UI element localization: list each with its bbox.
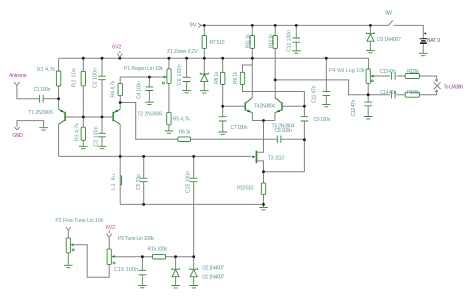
junction rail-P1: [168, 57, 171, 60]
junction rail-R8: [221, 57, 224, 60]
wire 6V2 regulated rail: [59, 58, 369, 69]
potentiometer P4 body: [366, 69, 370, 84]
wire T2 collector: [119, 124, 121, 156]
resistor R9: [240, 72, 244, 84]
capacitor C9: [301, 117, 309, 121]
transistor T1 2N3906 PNP: [59, 109, 66, 124]
wire L1 stem: [119, 156, 121, 204]
junction 9V-C10: [295, 24, 298, 27]
svg-text:T2 2N3906: T2 2N3906: [137, 112, 162, 118]
junction tune-D1: [174, 255, 177, 258]
wire audio takeoff T5 collector to P4 bottom: [275, 80, 368, 95]
wire D2 leads: [193, 257, 195, 285]
capacitor C7: [219, 117, 227, 121]
svg-text:P4 Vol Log 10k: P4 Vol Log 10k: [329, 68, 365, 74]
junction 9V-R11: [251, 24, 254, 27]
connector X To LM386: [434, 82, 441, 89]
wire C12 leads: [367, 95, 369, 116]
wire 9V rail right segment to battery: [394, 25, 424, 38]
capacitor C10: [293, 38, 301, 42]
capacitor C12: [364, 102, 372, 106]
svg-text:C13 47n: C13 47n: [380, 69, 397, 75]
wire ground bus: [120, 203, 263, 205]
diode D1 1N4007 varactor: [172, 268, 179, 277]
wire C15 leads: [193, 156, 195, 256]
svg-text:R9 1k: R9 1k: [233, 71, 239, 84]
capacitor C6: [183, 77, 191, 81]
svg-text:R1 4,7k: R1 4,7k: [37, 67, 55, 73]
potentiometer P2 wiper: [70, 243, 74, 251]
svg-text:Antenna: Antenna: [9, 73, 27, 79]
potentiometer P1 body: [167, 69, 171, 84]
svg-text:C5 33p: C5 33p: [136, 174, 142, 190]
resistor R13: [405, 74, 419, 79]
wire P1 top lead: [168, 58, 170, 69]
wire P3 bottom to P2 wiper: [74, 245, 109, 277]
capacitor C14: [391, 91, 395, 99]
svg-text:R6 1k: R6 1k: [179, 129, 191, 135]
wire volume row1 wiper to C13 R13: [373, 76, 436, 80]
ground below C4: [145, 102, 154, 104]
wire R9 bottom to T5 base node: [243, 85, 305, 107]
pin P2 top: [66, 227, 71, 230]
wire P1 bottom to R5: [168, 83, 170, 130]
svg-text:D2 1N4007: D2 1N4007: [202, 265, 224, 271]
junction rail-R2: [82, 57, 85, 60]
ground below R10: [259, 207, 268, 209]
junction wiper-C4: [148, 76, 151, 79]
svg-text:C16 100n: C16 100n: [114, 267, 138, 273]
wire C2 leads: [101, 58, 103, 117]
wire C5 leads: [143, 156, 145, 204]
svg-text:C6 100n: C6 100n: [177, 64, 183, 85]
capacitor C13: [391, 72, 395, 80]
junction T5col audio: [274, 79, 277, 82]
junction rail-Z1: [203, 57, 206, 60]
junction 9V-D3: [369, 24, 372, 27]
svg-text:R15 100k: R15 100k: [148, 246, 168, 252]
svg-text:R4 4,7k: R4 4,7k: [110, 80, 116, 97]
wire volume row2 to C14 R14: [368, 92, 436, 95]
ground below battery: [419, 53, 428, 55]
resistor R2: [81, 71, 85, 86]
ground below R5: [165, 131, 174, 133]
wire Z1 leads: [203, 58, 205, 90]
ground below D2: [189, 286, 198, 288]
ground below C7: [218, 132, 227, 134]
wire tank bus: [59, 155, 252, 157]
wire R2 leads: [82, 58, 84, 117]
resistor R1: [56, 71, 60, 86]
ground below P2: [64, 265, 73, 267]
junction bus-C5: [142, 155, 145, 158]
ground below Z1: [200, 91, 209, 93]
pin 9V: [198, 23, 201, 27]
potentiometer P2 body: [66, 238, 70, 253]
capacitor C1: [40, 95, 44, 103]
capacitor C8: [277, 136, 281, 143]
potentiometer P3 body: [107, 249, 111, 265]
wire tune line P3 wiper to R15 to varactors: [114, 256, 193, 258]
svg-text:P1 Regen Lin 10k: P1 Regen Lin 10k: [124, 66, 163, 72]
svg-text:R5 4,7k: R5 4,7k: [173, 117, 190, 123]
switch SW: [388, 20, 393, 25]
svg-text:C11 47n: C11 47n: [312, 85, 318, 103]
junction rail-T4col: [251, 57, 254, 60]
transistor T3 J113 JFET: [252, 151, 257, 164]
wire C4 leads: [148, 77, 150, 102]
svg-text:C3 100n: C3 100n: [94, 126, 100, 146]
resistor R10: [261, 183, 265, 195]
junction T5 base-C9: [303, 105, 306, 108]
wire T2 emitter node and R4 lead: [120, 96, 178, 140]
junction bus-T2col-L1: [119, 155, 122, 158]
svg-text:R8 1k: R8 1k: [214, 71, 220, 84]
wire C11 leads: [325, 58, 327, 104]
junction rail-C2: [101, 57, 104, 60]
svg-text:T3 J113: T3 J113: [268, 155, 284, 161]
junction T2 emitter R4: [119, 101, 122, 104]
wire T4 base: [223, 105, 245, 107]
svg-text:T1 2N3906: T1 2N3906: [28, 110, 53, 116]
svg-text:C14 47n: C14 47n: [380, 90, 397, 96]
capacitor C16: [139, 270, 147, 275]
svg-text:P3 Tune Lin 100k: P3 Tune Lin 100k: [118, 236, 154, 242]
ground at GND pin: [39, 128, 48, 130]
svg-text:C7 100n: C7 100n: [231, 125, 248, 131]
wire T5 base: [283, 105, 305, 107]
svg-text:9V: 9V: [190, 23, 197, 29]
pin tick row1 end: [435, 80, 438, 82]
junction 9V-R12: [274, 24, 277, 27]
wire D3 leads: [369, 25, 371, 50]
junction rail-C11: [325, 57, 328, 60]
svg-text:C4 100n: C4 100n: [137, 81, 143, 99]
junction base-C3: [101, 116, 104, 119]
junction tune-C16: [141, 255, 144, 258]
wire R6 to C8 to C9 node: [191, 138, 305, 140]
potentiometer P3 wiper: [111, 255, 115, 264]
svg-text:6V2: 6V2: [106, 225, 115, 231]
pin GND: [14, 127, 19, 130]
junction tune-D2: [192, 255, 195, 258]
zener diode Z1: [200, 73, 208, 82]
resistor R4: [118, 83, 122, 95]
potentiometer P1 wiper: [163, 76, 167, 84]
svg-text:C15 100n: C15 100n: [185, 171, 191, 193]
capacitor C11: [323, 91, 331, 95]
battery BAT 9: [420, 33, 427, 44]
resistor R8: [221, 72, 225, 84]
resistor R14: [405, 92, 419, 97]
svg-text:T4 2N3904: T4 2N3904: [254, 103, 275, 109]
svg-text:R13 1k: R13 1k: [407, 69, 419, 75]
svg-text:R2 10k: R2 10k: [71, 68, 77, 87]
junction bus-C15: [192, 155, 195, 158]
ground below C3: [98, 146, 107, 148]
capacitor C15: [190, 178, 198, 182]
wire R1 leads: [58, 58, 60, 109]
resistor R15: [153, 254, 166, 259]
transistor T4 2N3904 NPN: [245, 98, 253, 113]
capacitor C4: [146, 87, 154, 91]
capacitor C5: [140, 178, 148, 182]
ground below C6: [182, 90, 191, 92]
resistor R5: [167, 112, 171, 124]
svg-text:C9 100n: C9 100n: [314, 117, 331, 123]
wire base line T1-T2: [66, 116, 112, 118]
pin 6V2 supply arrow top: [117, 51, 122, 57]
junction rail-C6: [185, 57, 188, 60]
junction R6-C9-T3: [303, 138, 306, 141]
ground below C10: [292, 51, 301, 53]
resistor R3: [81, 127, 85, 140]
pin 6V2 supply arrow at P3: [107, 230, 112, 237]
wire C6 leads: [186, 58, 188, 90]
svg-text:6V2: 6V2: [112, 45, 121, 51]
wire battery lower lead: [422, 44, 424, 53]
wire T3 drain and source stubs: [258, 121, 264, 172]
inductor L1: [120, 176, 122, 186]
ground below D1: [171, 286, 180, 288]
wire R8 leads: [222, 58, 224, 106]
svg-text:D1 1N4007: D1 1N4007: [202, 274, 224, 280]
svg-text:C10 100n: C10 100n: [287, 30, 293, 52]
junction C7-R8-T4base: [221, 105, 224, 108]
ground below R3: [79, 146, 88, 148]
wire 9V rail left segment: [202, 24, 389, 26]
wire R10 leads: [263, 172, 265, 207]
wire C9 leads: [303, 106, 305, 140]
wire R9 top jog: [243, 65, 253, 72]
transistor T5 2N3904 NPN: [275, 98, 283, 113]
junction emitters T4 T5: [262, 119, 265, 122]
junction base-R3: [82, 116, 85, 119]
junction rail-6V2: [118, 57, 121, 60]
junction gndbus-C5: [142, 203, 145, 206]
junction T3 source: [262, 170, 265, 173]
resistor R12: [273, 36, 277, 49]
wire C7 leads: [222, 106, 224, 131]
ground below C16: [138, 285, 147, 287]
resistor R7: [202, 36, 206, 49]
wire T1 collector to tank bus: [58, 124, 60, 156]
svg-text:C8 100n: C8 100n: [275, 128, 293, 134]
diode D3 1N4007: [367, 32, 375, 41]
wire antenna to C1: [17, 85, 39, 98]
pin Antenna: [14, 82, 20, 86]
transistor T2 2N3906 PNP: [112, 109, 120, 124]
capacitor C3: [98, 133, 106, 137]
wire T4 collector vertical: [251, 58, 253, 97]
svg-text:SW: SW: [385, 11, 392, 17]
ground below D3: [366, 50, 375, 52]
svg-text:L1 4u: L1 4u: [111, 174, 117, 190]
svg-text:Z1 Zener 8,2V: Z1 Zener 8,2V: [167, 49, 199, 55]
svg-text:R7 510: R7 510: [210, 40, 225, 46]
svg-text:C12 47n: C12 47n: [351, 99, 357, 116]
resistor R6: [178, 137, 191, 142]
wire P3 top lead: [108, 237, 110, 249]
svg-text:BAT 9: BAT 9: [427, 38, 440, 44]
wire C1 to T1 emitter node: [44, 98, 59, 100]
wire R7 leads: [203, 25, 205, 58]
wire P2 leads: [67, 230, 69, 265]
svg-text:R11 1k: R11 1k: [246, 34, 252, 48]
wire C3 leads: [101, 117, 103, 146]
wire R12 lead to T5 collector: [274, 25, 276, 97]
wire GND pin bracket: [17, 121, 44, 128]
svg-text:C1 100n: C1 100n: [34, 87, 51, 93]
svg-text:R14 1k: R14 1k: [407, 90, 419, 96]
wire T4 T5 emitter join: [252, 113, 275, 153]
wire P1 wiper line: [120, 77, 164, 83]
wire R3 leads: [82, 117, 84, 146]
ground below C11: [322, 104, 331, 106]
junction P4 bottom C12: [367, 93, 370, 96]
svg-text:D3 1N4007: D3 1N4007: [377, 37, 401, 43]
wire P4 bottom lead: [367, 84, 369, 95]
svg-text:R3 4,7k: R3 4,7k: [75, 123, 81, 141]
junction C1-T1: [57, 97, 60, 100]
junction gndbus-R10: [262, 203, 265, 206]
resistor R11: [250, 36, 254, 49]
pin tick row2 end: [435, 90, 438, 92]
svg-text:R12 1k: R12 1k: [269, 34, 275, 48]
junction 9V-R7: [203, 24, 206, 27]
capacitor C2: [98, 76, 106, 80]
diode D2 1N4007 varactor: [190, 268, 197, 277]
wire D1 leads: [175, 257, 177, 285]
wire T3 source node to C9 bottom: [264, 140, 305, 172]
wire R11 leads: [251, 25, 253, 58]
wire C16 leads: [141, 257, 143, 285]
wire C10 leads: [295, 25, 297, 50]
svg-text:C2 100n: C2 100n: [93, 68, 99, 88]
svg-text:P2 Fine Tune Lin 10k: P2 Fine Tune Lin 10k: [55, 218, 103, 224]
svg-text:To LM386: To LM386: [444, 85, 464, 91]
svg-text:GND: GND: [12, 133, 23, 139]
svg-text:R10 510: R10 510: [237, 185, 254, 191]
ground below C12: [364, 117, 373, 119]
potentiometer P4 wiper: [370, 75, 373, 82]
